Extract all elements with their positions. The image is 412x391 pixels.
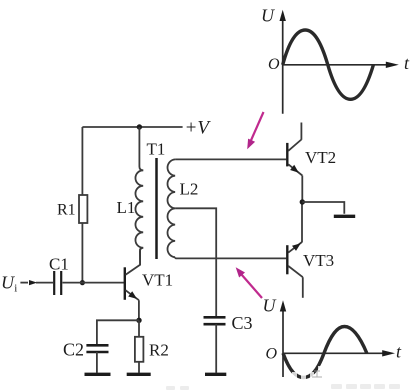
label C3 <box>232 313 253 333</box>
svg-text:U: U <box>263 296 277 316</box>
svg-text:L2: L2 <box>180 180 199 199</box>
input arrow <box>20 280 37 285</box>
wire input to C1 <box>36 282 53 284</box>
wire emitter node to R2 <box>138 320 140 337</box>
ground below R2 <box>127 373 151 376</box>
resistor R1 <box>79 195 87 223</box>
svg-text:C3: C3 <box>232 313 253 333</box>
transformer T1 core <box>155 158 158 259</box>
graph top: U axis <box>280 10 286 114</box>
watermark faint mark near trough <box>312 371 322 377</box>
graph top: t axis <box>283 62 399 68</box>
annotation arrow to VT3 base wire <box>236 267 262 298</box>
svg-text:C2: C2 <box>63 340 84 360</box>
label VT2 <box>305 148 336 167</box>
svg-text:O: O <box>266 346 278 363</box>
capacitor C3 <box>204 317 226 373</box>
wire left vertical from +V rail to R1 <box>81 127 83 195</box>
annotation arrow to VT2 base wire <box>247 112 263 149</box>
graph bottom: U axis <box>280 300 286 377</box>
transistor VT1 <box>125 249 140 321</box>
graph top: sine wave <box>283 30 374 99</box>
wire emitter node to C2 <box>97 320 139 344</box>
graph top: label U <box>261 5 275 25</box>
svg-text:R2: R2 <box>149 341 169 360</box>
svg-text:VT2: VT2 <box>305 148 336 167</box>
transistor VT2 <box>287 123 302 203</box>
node input junction dot <box>80 280 85 285</box>
graph bottom: t axis <box>283 350 395 356</box>
svg-text:L1: L1 <box>117 198 136 217</box>
resistor R2 <box>135 337 144 362</box>
capacitor C1 <box>54 271 61 295</box>
graph bottom: label U <box>263 296 277 316</box>
node junction dot on +V rail <box>137 124 142 129</box>
svg-text:T1: T1 <box>147 140 166 159</box>
watermark faint band bottom right <box>166 384 400 390</box>
wire L2 bottom to VT3 base <box>175 257 286 258</box>
svg-text:U: U <box>1 272 15 292</box>
graph bottom: label O <box>266 346 278 363</box>
label C1 <box>49 255 69 274</box>
graph top: label O <box>268 56 280 73</box>
ground below C3 <box>205 373 226 376</box>
graph bottom: label t <box>396 341 402 361</box>
svg-text:C1: C1 <box>49 255 69 274</box>
svg-text:O: O <box>268 56 280 73</box>
svg-text:+V: +V <box>185 118 212 139</box>
svg-text:R1: R1 <box>57 202 76 219</box>
label +V <box>185 118 212 139</box>
watermark wash over trough <box>292 366 322 384</box>
label R1 <box>57 202 76 219</box>
label Ui <box>1 272 17 294</box>
graph top: label t <box>404 53 410 73</box>
node VT1 emitter junction dot <box>136 318 141 323</box>
wire C1 to VT1 base <box>63 282 125 284</box>
svg-text:U: U <box>261 5 275 25</box>
inductor L1 <box>135 127 143 265</box>
wire L2 center tap to C3 <box>175 208 216 316</box>
svg-text:VT1: VT1 <box>142 271 173 290</box>
label R2 <box>149 341 169 360</box>
label C2 <box>63 340 84 360</box>
label VT3 <box>303 251 334 270</box>
wire emitters to ground <box>302 202 344 214</box>
wire R1 to input node <box>81 223 83 283</box>
inductor L2 <box>168 159 176 257</box>
label L2 <box>180 180 199 199</box>
label L1 <box>117 198 136 217</box>
wire L2 top to VT2 base <box>175 158 286 160</box>
label T1 <box>147 140 166 159</box>
svg-text:VT3: VT3 <box>303 251 334 270</box>
svg-text:i: i <box>14 282 17 294</box>
wire +V top rail <box>82 126 182 128</box>
label VT1 <box>142 271 173 290</box>
graph bottom: sine wave <box>283 327 367 378</box>
ground emitters <box>334 215 355 218</box>
ground below C2 <box>85 373 111 376</box>
wire R2 to ground <box>138 362 140 373</box>
capacitor C2 <box>86 345 108 373</box>
transistor VT3 <box>287 202 303 298</box>
node emitters junction dot <box>300 199 305 204</box>
